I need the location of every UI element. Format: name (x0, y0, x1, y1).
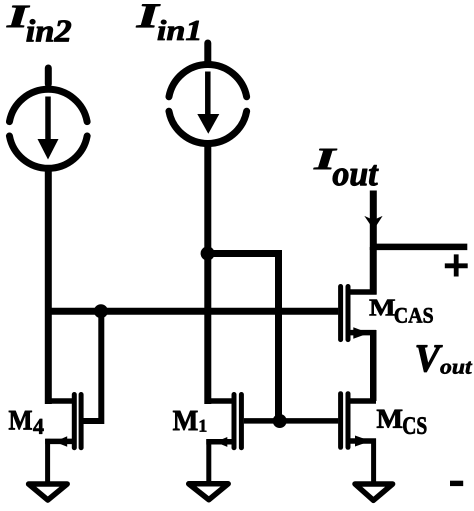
label Vout (417, 345, 472, 373)
current source Iin1 (169, 64, 247, 143)
wire Iin2 top stub (45, 68, 52, 84)
wire gate bus Iin2 node to MCAS gate (48, 308, 338, 315)
label M1 (173, 411, 206, 432)
label Iin2 (7, 6, 71, 42)
wire output line (370, 244, 467, 251)
arrow Iout (364, 216, 382, 230)
wire M4 gate branch (84, 311, 102, 421)
node dot on Iin1 wire (201, 247, 215, 261)
label plus (445, 254, 468, 276)
ground M1 (189, 484, 229, 500)
wire Iout vertical (370, 191, 377, 251)
wire Iin2 to M4 drain (45, 170, 52, 404)
transistor M4 (45, 395, 81, 485)
ground MCS (355, 484, 393, 500)
current source Iin2 (9, 89, 87, 168)
node dot on gate bus (94, 304, 108, 318)
wire Iin1 top stub (204, 43, 211, 62)
label minus (450, 481, 463, 486)
transistor M1 (206, 395, 242, 485)
label M4 (9, 411, 44, 434)
label MCAS (369, 300, 432, 323)
transistor MCAS (341, 247, 377, 401)
node dot on M1 gate bus (273, 414, 287, 428)
label Iin1 (136, 5, 199, 40)
wire M1 gate bus to MCS (244, 418, 338, 424)
label MCS (377, 410, 426, 434)
ground M4 (29, 484, 68, 500)
label Iout (314, 149, 379, 186)
wire Iin1 to M1 drain (204, 145, 211, 404)
wire gate loop from node to M1/MCS gate bus (208, 254, 279, 422)
transistor MCS (341, 394, 376, 484)
